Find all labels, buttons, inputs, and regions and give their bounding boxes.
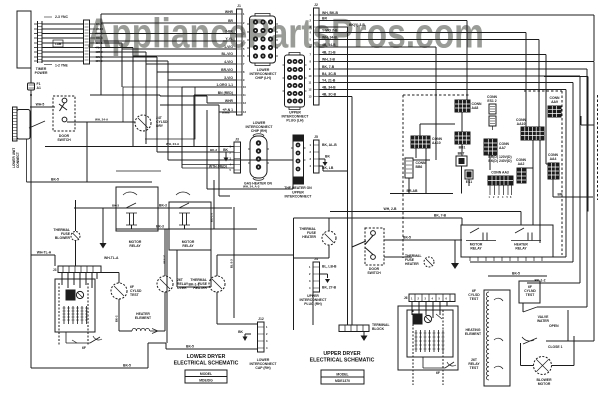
wire [581,116,594,125]
terminal block bar [339,323,390,332]
lower interconnect chip LH connector [247,14,278,66]
small tab box [53,40,63,47]
wire [207,184,293,189]
wire J5 pin4 [319,166,348,171]
svg-text:4B, 3C-B: 4B, 3C-B [322,92,337,96]
wire into bar from left rail [31,251,55,267]
wire [465,328,482,336]
wire [164,229,166,276]
svg-text:CLOSE 1: CLOSE 1 [548,345,563,349]
wire [181,87,183,168]
svg-text:BK: BK [223,148,228,152]
wire J1 pin4 [95,37,236,41]
harness vertical drops [121,49,123,87]
svg-text:ELEMENT: ELEMENT [135,316,152,320]
svg-text:Y-YL: Y-YL [225,37,233,41]
svg-text:UPPER DRYER: UPPER DRYER [323,351,361,357]
wire J2 pin9 [319,65,587,307]
svg-text:MODEL: MODEL [336,373,348,377]
svg-text:CONN AA3: CONN AA3 [491,171,509,175]
wire J1 pin8 [95,57,236,72]
svg-text:2-BK: 2-BK [225,29,233,33]
ground arrow mid-left [100,208,120,260]
svg-text:HEATER: HEATER [302,235,316,239]
svg-text:ES1 2: ES1 2 [487,99,496,103]
svg-text:AA10: AA10 [517,122,526,126]
svg-text:4B, 34-B: 4B, 34-B [322,85,336,89]
svg-text:Y4, 21-B: Y4, 21-B [322,78,336,82]
svg-text:BK, AL-B: BK, AL-B [322,143,337,147]
label TIMER POWER [35,67,48,75]
terminal bar J3 lower [53,266,101,273]
terminal bar J6 [404,294,455,302]
wire from timer box down [30,68,32,83]
wire top upper section [330,207,521,225]
wire J1 pin9 [95,61,236,80]
label lower interconnect chip RH [246,121,274,133]
wire J2 pin11 [319,78,573,262]
svg-text:BK: BK [325,155,330,159]
wire [573,336,575,366]
bottom boundary wire lower schematic [31,343,258,368]
thermal fuse heater lower [190,276,225,292]
26T relay over sensor [157,276,189,292]
wire left rail down [30,90,32,368]
svg-text:BK, 7-B: BK, 7-B [322,65,335,69]
svg-text:WH-5: WH-5 [36,103,45,107]
svg-text:BR-AB: BR-AB [407,189,418,193]
conn AA10 left block [411,136,443,148]
model table lower [185,370,227,383]
wire J2 pin12 [319,85,566,257]
6F cylsd test sensor [111,283,142,299]
label 24T CYLSD DRY [156,116,168,128]
label upper interconnect plug LH [282,111,310,123]
conn AA2 block [516,158,527,183]
wire connector to door switch [30,103,55,108]
relay box bottom pins [470,257,542,261]
door switch contacts [29,98,67,128]
thermal fuse heater upper [294,218,337,258]
wire door sw down [86,122,88,182]
wire [145,64,147,144]
wire corner top right [544,77,588,212]
dashed console boundary vertical right [561,91,563,255]
svg-text:BK-3: BK-3 [210,148,217,152]
motor relay 1 contacts [123,192,137,229]
svg-text:TEST: TEST [470,366,480,370]
conn AA4 block [548,153,559,179]
wire [219,195,230,197]
wires timer strip to edge connector [42,24,83,61]
wires linking conn blocks [461,112,463,132]
svg-text:BK-5: BK-5 [123,364,131,368]
svg-text:BN (RED): BN (RED) [218,91,233,95]
svg-text:CONNECT: CONNECT [16,152,20,168]
upper console dashed frame [413,310,443,385]
heater element coil vertical [486,292,489,380]
label motor relay 2 [182,240,195,248]
thermal sensor by J6 [424,257,434,267]
extra wire labels [95,111,260,208]
vertical right of relay2 [230,207,235,318]
wire [157,151,234,153]
wire [527,279,561,284]
svg-text:B4, 3C-B: B4, 3C-B [322,72,337,76]
svg-text:TEST: TEST [526,293,536,297]
svg-text:WHR: WHR [225,99,234,103]
conn AA9 block [548,96,561,117]
upper interconnect plug RH connector [291,135,306,184]
lower timer console box [55,279,95,332]
wire door switch to dryness circle [67,121,135,123]
wire [217,292,258,324]
valve water switches [521,303,569,366]
svg-text:J5: J5 [314,135,318,139]
ground under terminal block [361,332,368,342]
svg-text:WH, 34-B: WH, 34-B [322,35,337,39]
dashed boundary far right [597,95,599,200]
label 1-2 YNE [44,64,68,68]
svg-text:BL-2-3: BL-2-3 [230,259,234,268]
svg-text:BK, 7-B: BK, 7-B [434,214,447,218]
svg-text:LOWER DRYER: LOWER DRYER [187,354,226,360]
vertical BK-1-3 [210,185,215,229]
lower interconnect cap connector (left) [13,107,31,141]
thermal fuse blower [53,200,80,266]
upper console inner box [407,310,453,357]
dryness control box [116,87,195,171]
timer enclosure box [17,11,31,68]
upper console resistor columns [415,330,445,352]
svg-text:J3: J3 [53,268,57,272]
svg-text:BK-5: BK-5 [512,272,520,276]
svg-text:2-3 YNC: 2-3 YNC [55,15,68,19]
wire [539,140,541,243]
svg-text:BK(Y) 3-B: BK(Y) 3-B [349,23,365,27]
svg-text:RELAY: RELAY [129,244,141,248]
svg-text:BK, LB: BK, LB [322,166,334,170]
svg-text:BLOCK: BLOCK [372,327,385,331]
svg-text:BK-5: BK-5 [51,178,59,182]
24T cyl dry sensor [135,115,151,131]
vertical WH-LS [163,229,168,343]
wire J1 pin10 [182,83,236,87]
wire [312,292,314,325]
bottom right blower wires [567,310,569,341]
svg-text:AA8: AA8 [472,106,479,110]
wire [206,110,208,189]
upper relay box [461,225,553,257]
svg-text:OVER: OVER [177,286,187,290]
svg-text:WH-2: WH-2 [96,27,104,31]
wire [484,155,490,170]
conn BB7 box [456,152,467,167]
label motor relay 1 [129,240,142,248]
svg-text:BR-VIO: BR-VIO [221,68,233,72]
wires into terminal block [347,105,349,325]
title lower dryer [174,354,239,367]
connector J12 [258,317,269,352]
wire [461,144,463,156]
svg-text:PLUG (LH): PLUG (LH) [286,119,303,123]
svg-text:TEST: TEST [130,293,140,297]
connector J1 [237,4,247,115]
svg-text:CHIP (LH): CHIP (LH) [255,76,271,80]
wire J1 pin6 [95,48,236,57]
wires into J3 and plug RH [45,146,234,148]
svg-text:WH, BK-B: WH, BK-B [322,11,339,15]
svg-text:AA4: AA4 [550,157,557,161]
svg-text:3-VIO: 3-VIO [224,76,233,80]
timer motor blob [66,290,84,300]
wire bottom of conn cluster [390,189,453,194]
wire stubs right of edge connector with labels [90,22,104,63]
upper console bottom switch [423,357,456,375]
label thermal fuse heater small [405,254,422,266]
label gas heater [244,182,273,186]
wire J2 pin1 to far right [319,11,594,61]
wire J1 pin5 [95,43,236,49]
labels heater column [468,289,480,301]
console drops from J6 [412,302,447,319]
wire harness left vertical [90,14,160,96]
wire [351,140,353,325]
wire [526,140,533,225]
ground arrow right [451,240,459,269]
wire [218,112,220,196]
dashed console boundary vertical left [402,95,404,258]
wire [193,95,195,147]
svg-text:BR: BR [558,193,563,197]
wire [182,165,234,169]
long wire lower left [27,139,153,182]
bar to console drops [62,273,97,289]
wire J2 pin2 [319,16,467,100]
wire [461,166,463,194]
console bottom switch [66,332,102,350]
svg-text:BK(D) 240V(D): BK(D) 240V(D) [488,159,511,163]
svg-text:J6: J6 [404,296,408,300]
wire J1 pin7 [95,52,236,64]
wire relay row bottom [116,225,257,230]
wire J1 pin3 [95,29,236,33]
wire [468,358,480,370]
wire J2 area down to relays [213,180,215,185]
wire [468,179,470,186]
wire J2 pin5 [319,35,539,127]
upper interconnect plug LH connector [283,53,307,110]
edge connector P1 [84,20,90,64]
wires below relay box [488,272,547,277]
svg-text:ELECTRICAL SCHEMATIC: ELECTRICAL SCHEMATIC [310,358,375,364]
svg-text:HEATER: HEATER [193,286,207,290]
door switch dashed box [53,96,75,131]
motor relay 1 box [116,187,158,231]
6f cylnd test box right [519,281,540,303]
connector J5 [310,135,338,173]
ground at J5 [319,159,328,166]
svg-text:BR: BR [322,16,327,20]
svg-text:RELAY: RELAY [182,244,194,248]
wire J1 pin11 [194,91,236,95]
timer cam contact strip [34,21,42,63]
wire [553,179,593,197]
svg-text:WH, 24-A: WH, 24-A [166,142,180,146]
svg-text:J12: J12 [258,317,264,321]
svg-text:BK-1-3: BK-1-3 [210,213,214,222]
svg-text:RELAY: RELAY [515,247,527,251]
svg-text:MDE/DG: MDE/DG [199,379,213,383]
upper motor relay contacts [466,228,496,251]
svg-text:BB7: BB7 [458,152,465,156]
wire relay row top [74,204,232,209]
heater column switches [494,298,503,369]
connector J4 [309,257,337,292]
svg-text:4-VIO: 4-VIO [224,60,233,64]
svg-text:BL, LB-B: BL, LB-B [322,265,337,269]
wire [425,148,427,194]
svg-text:1-ORG 1-1: 1-ORG 1-1 [216,83,233,87]
wire [115,299,120,331]
blower motor dashed circle [521,357,575,387]
wire [408,178,410,194]
svg-text:BK-3: BK-3 [159,204,167,208]
svg-text:6F: 6F [82,346,86,350]
svg-text:BK-5: BK-5 [403,236,411,240]
svg-text:BK-2: BK-2 [115,315,119,322]
upper timer motor blob [413,314,442,324]
svg-text:ELEMENT: ELEMENT [465,332,482,336]
svg-text:MOTOR: MOTOR [538,382,551,386]
svg-text:WHM: WHM [222,111,230,115]
motor relay 2 contacts [176,192,190,229]
upper door switch dashed box [365,228,384,265]
wire J2 pin4 [319,28,526,127]
wire J2 pin8 [319,57,594,341]
label lower interconnect cap RH [250,358,278,370]
svg-text:AA2: AA2 [518,162,525,166]
wire [294,214,463,226]
vertical note text [12,148,20,168]
wire J1 pin12 [160,96,236,103]
svg-text:J3: J3 [235,138,239,142]
wire [328,258,330,325]
svg-text:J4: J4 [314,257,318,261]
svg-text:WH, 2-B: WH, 2-B [384,207,398,211]
svg-text:CHIP (RH): CHIP (RH) [251,129,267,133]
label DOOR SWITCH [57,134,71,142]
label upper interconnect plug RH under J4 [300,294,328,306]
svg-text:WH, 24-A: WH, 24-A [95,118,109,122]
wire J2 pin10 [319,72,580,283]
svg-text:RELAY: RELAY [470,247,482,251]
label WTH RED [209,165,227,169]
title upper dryer [310,351,375,364]
conn AA7 block [484,139,510,155]
conn AA3 strip [488,155,513,199]
motor relay 2 box [169,202,211,250]
svg-text:J1: J1 [237,4,241,8]
svg-text:BK-3: BK-3 [156,225,164,229]
connector J3 [230,138,241,174]
wire [168,159,293,161]
wire [415,148,417,158]
wire J1 pin13 [160,105,236,112]
svg-text:OPEN: OPEN [549,324,559,328]
wire J2 pin7 [319,50,546,164]
wire J2 pin6 [319,43,436,136]
svg-text:WHR: WHR [225,10,234,14]
svg-text:AA9: AA9 [551,100,558,104]
svg-text:SWITCH: SWITCH [57,138,71,142]
model table upper [321,370,364,384]
wire [138,118,148,128]
heater column box [484,290,510,386]
svg-text:WATER: WATER [537,319,550,323]
label lower interconnect chip LH [250,68,278,80]
label upper interconnect plug RH [284,186,312,199]
conn BB6 strip [405,158,426,178]
ground at J3 [223,148,228,162]
wire [217,255,294,276]
dashed console boundary top [403,91,562,95]
upper console outer box [398,306,458,370]
conn AA8 block [455,100,482,112]
svg-text:4B, 21-B: 4B, 21-B [322,50,336,54]
wires sensor 2 [158,292,165,331]
wire J1 pin1 WHR [101,10,236,14]
ground at J12 [238,330,251,341]
svg-text:WH, 24, A-3: WH, 24, A-3 [243,185,260,189]
svg-text:HEATER: HEATER [405,262,419,266]
svg-text:SWITCH: SWITCH [367,271,381,275]
conn ES1 box small [465,170,473,184]
connector J2 [309,3,320,105]
fuse F1 [28,82,41,90]
heater element coil [119,312,158,334]
upper boundary box left [293,218,295,330]
label 2-3 YNC [44,15,68,19]
svg-text:RD-4: RD-4 [96,36,103,40]
svg-text:BR: BR [228,19,233,23]
svg-text:POWER: POWER [35,71,48,75]
conn BB1 block [455,132,470,150]
svg-text:MDE1370: MDE1370 [335,379,350,383]
svg-text:1-VIO: 1-VIO [224,45,233,49]
upper heater relay contacts [511,228,541,251]
console dashed frame [59,283,88,345]
wire [132,56,134,147]
gas valve coil assembly [248,134,269,181]
label upper door switch [367,267,381,275]
svg-text:BLOWER: BLOWER [55,236,71,240]
svg-text:MODEL: MODEL [200,372,212,376]
conn AA10 right block [516,118,544,140]
svg-text:BB6: BB6 [416,165,423,169]
relay2 bottom loop [177,250,211,287]
svg-text:WH, 2-B: WH, 2-B [322,57,336,61]
svg-text:BK, 27-B: BK, 27-B [322,286,337,290]
svg-text:Y-VIO 7-B: Y-VIO 7-B [322,28,338,32]
wire [413,136,436,160]
svg-text:CAP (RH): CAP (RH) [255,366,270,370]
wire [420,124,455,136]
wire [546,163,548,165]
svg-text:ELECTRICAL SCHEMATIC: ELECTRICAL SCHEMATIC [174,361,239,367]
wire J2 pin13 [319,92,352,140]
upper door switch contacts [352,231,462,260]
